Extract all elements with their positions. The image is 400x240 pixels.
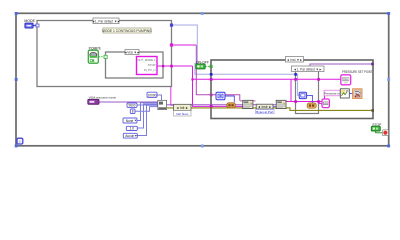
selection handle left-mid [15, 78, 18, 81]
svg-text:Bytes at Port: Bytes at Port [256, 110, 273, 114]
selection handle bottom-right [387, 145, 390, 148]
error wire end tunnel [371, 109, 374, 112]
indicator PRESSURE SET POINT [341, 70, 373, 85]
tunnel blue on case1 edge [170, 24, 173, 27]
case structure 2 (serial comm, right) [211, 60, 373, 119]
loop condition terminal [382, 130, 388, 136]
selector label case3 [292, 66, 325, 72]
VISA configure serial port [158, 100, 167, 109]
wire pink from unused tunnel y45 [172, 44, 197, 46]
wire green STOP to loop condition [376, 131, 383, 133]
case structure 3 (parse, 1 Par defaut) [296, 70, 319, 114]
selection handle top-left [15, 12, 18, 15]
wire blue MODE to selector tunnel [33, 25, 35, 27]
wire pink string from OUT_MODE box [157, 65, 193, 67]
tunnel blue dot case3 edge y74 [294, 73, 297, 76]
property node Instr / Bytes at Port [256, 104, 274, 114]
terminal ON-OFF [196, 61, 209, 69]
terminal POMPE [88, 47, 101, 64]
svg-text:◄ Instr ►: ◄ Instr ► [257, 105, 271, 109]
junction pink trunk y79 [191, 78, 193, 80]
wire dark pink vertical trunk [196, 45, 240, 101]
scan node (orange, case3) [307, 103, 316, 108]
indicator string (pink, case2) [322, 99, 329, 108]
svg-text:STOP: STOP [148, 63, 156, 67]
svg-text:◄ Init ►: ◄ Init ► [176, 106, 189, 110]
svg-text:◄1, Par défaut ▼►: ◄1, Par défaut ▼► [293, 67, 322, 71]
indicator gauge PRESSURE [353, 89, 362, 99]
svg-text:PRESSURE SET POINT: PRESSURE SET POINT [342, 70, 373, 74]
VISA write [243, 100, 253, 108]
case structure Vrai (POMPE) [106, 52, 164, 78]
wire blue converter to format node [225, 96, 234, 102]
wire error cluster olive [167, 108, 373, 111]
svg-text:OUT_MODE 1: OUT_MODE 1 [137, 58, 156, 62]
VISA read [276, 100, 286, 108]
selector label case1 [92, 18, 121, 24]
constant Aucun [123, 133, 137, 138]
wire pink down along case edge to VISA write left [171, 87, 174, 105]
svg-text:◄Vrai ▼►: ◄Vrai ▼► [124, 51, 140, 55]
constant 8 [130, 109, 135, 114]
tunnel pink on case1 edge [170, 43, 173, 46]
tunnel pink dot case3 left y79 [294, 78, 297, 81]
svg-text:10000: 10000 [148, 93, 157, 97]
wire to gauge [349, 93, 352, 95]
tunnel pink dot case3 right y79 [317, 78, 320, 81]
svg-text:MODE: MODE [24, 19, 35, 23]
tunnel violet on case2 right edge [371, 63, 374, 66]
tunnel green on case2 edge [210, 65, 213, 68]
wire blue stop bits [137, 104, 158, 128]
constant 10000 [147, 92, 157, 97]
svg-text:Init! Num: Init! Num [176, 112, 189, 116]
converter icon (blue, case2) [216, 92, 225, 99]
selector label case2 [286, 57, 304, 63]
tunnel pink dot case2 edge y79 [210, 78, 213, 81]
wire blue data bits 8 [135, 107, 158, 112]
wire blue flow control Aucun [137, 105, 158, 135]
wire blue baud 9600 [137, 104, 158, 106]
tunnel pink dot case3 right y101 [317, 100, 320, 103]
terminal MODE [24, 19, 35, 28]
wire green POMPE boolean [99, 56, 104, 58]
terminal STOP [371, 123, 382, 131]
selection handle top-right [387, 12, 390, 15]
wire blue case3 converter to scan node [307, 95, 313, 103]
svg-text:1.0: 1.0 [130, 127, 135, 131]
constant None [123, 118, 137, 123]
constant 9600 [127, 103, 137, 108]
express VI Init [174, 104, 192, 116]
free label MODE 1 CONTINOUS PUMPING [102, 28, 152, 33]
format node (orange, case2) [227, 103, 236, 108]
wire pink from VISA read to Pressure VI [286, 79, 341, 101]
while loop (outer) [16, 13, 389, 146]
svg-text:Pressure m: Pressure m [324, 92, 340, 96]
subVI Pressure measure [340, 89, 349, 98]
selection handle right-mid [387, 78, 390, 81]
tunnel mode selector [36, 24, 39, 27]
junction pink at vrai edge [162, 65, 164, 67]
subVI OUT_MODE cluster box [137, 57, 158, 75]
wire violet VISA resource [99, 101, 158, 103]
svg-text:◄1, Par défaut ▼►: ◄1, Par défaut ▼► [92, 19, 121, 23]
constant 1.0 [126, 126, 137, 130]
wire lavender inside case3 to converter [296, 74, 300, 95]
wire blue timeout constant 10000 [157, 95, 162, 101]
svg-text:8: 8 [132, 110, 134, 114]
tunnel pink dot case3 left y101 [294, 100, 297, 103]
junction pink at case1 edge y66 [170, 65, 173, 68]
wire violet VISA through serial nodes [167, 104, 287, 106]
label Pressure mes [324, 90, 340, 96]
loop iteration terminal i [17, 138, 23, 144]
wire bytes count to read [273, 106, 276, 108]
wire lavender I32 from case1 to case3 [172, 25, 296, 74]
case structure 1 MODE [37, 21, 172, 87]
svg-text:9600: 9600 [128, 104, 135, 108]
svg-text:IN_PV_U: IN_PV_U [144, 68, 156, 72]
tunnel blue dot case2 edge [210, 73, 213, 76]
selector label vrai [124, 50, 140, 55]
converter icon (blue, case3) [299, 92, 306, 98]
selection handle bottom-mid [201, 145, 204, 148]
svg-text:DBL: DBL [343, 77, 349, 81]
wire green ON-OFF boolean [205, 66, 210, 68]
terminal VISA resource name [88, 96, 117, 105]
svg-text:None: None [126, 119, 134, 123]
svg-text:DBL: DBL [323, 102, 329, 106]
wire pink to pressure setpoint indicator [193, 78, 342, 80]
selection handle bottom-left [15, 145, 18, 148]
svg-text:Aucun: Aucun [125, 134, 134, 138]
wire pink stub to string indicator [319, 103, 323, 105]
tunnel pink dot case2 edge y95 [210, 94, 213, 97]
svg-text:MODE 1 CONTINOUS PUMPING: MODE 1 CONTINOUS PUMPING [102, 29, 152, 33]
wire violet VISA to right tunnel [310, 64, 372, 70]
svg-text:◄ Inst ▼►: ◄ Inst ▼► [286, 58, 302, 62]
tunnel pink dot case2 edge y106 [210, 105, 213, 108]
tunnel hollow green vrai edge [104, 55, 107, 58]
selection handle top-mid [201, 12, 204, 15]
wire blue parity None [137, 103, 158, 121]
